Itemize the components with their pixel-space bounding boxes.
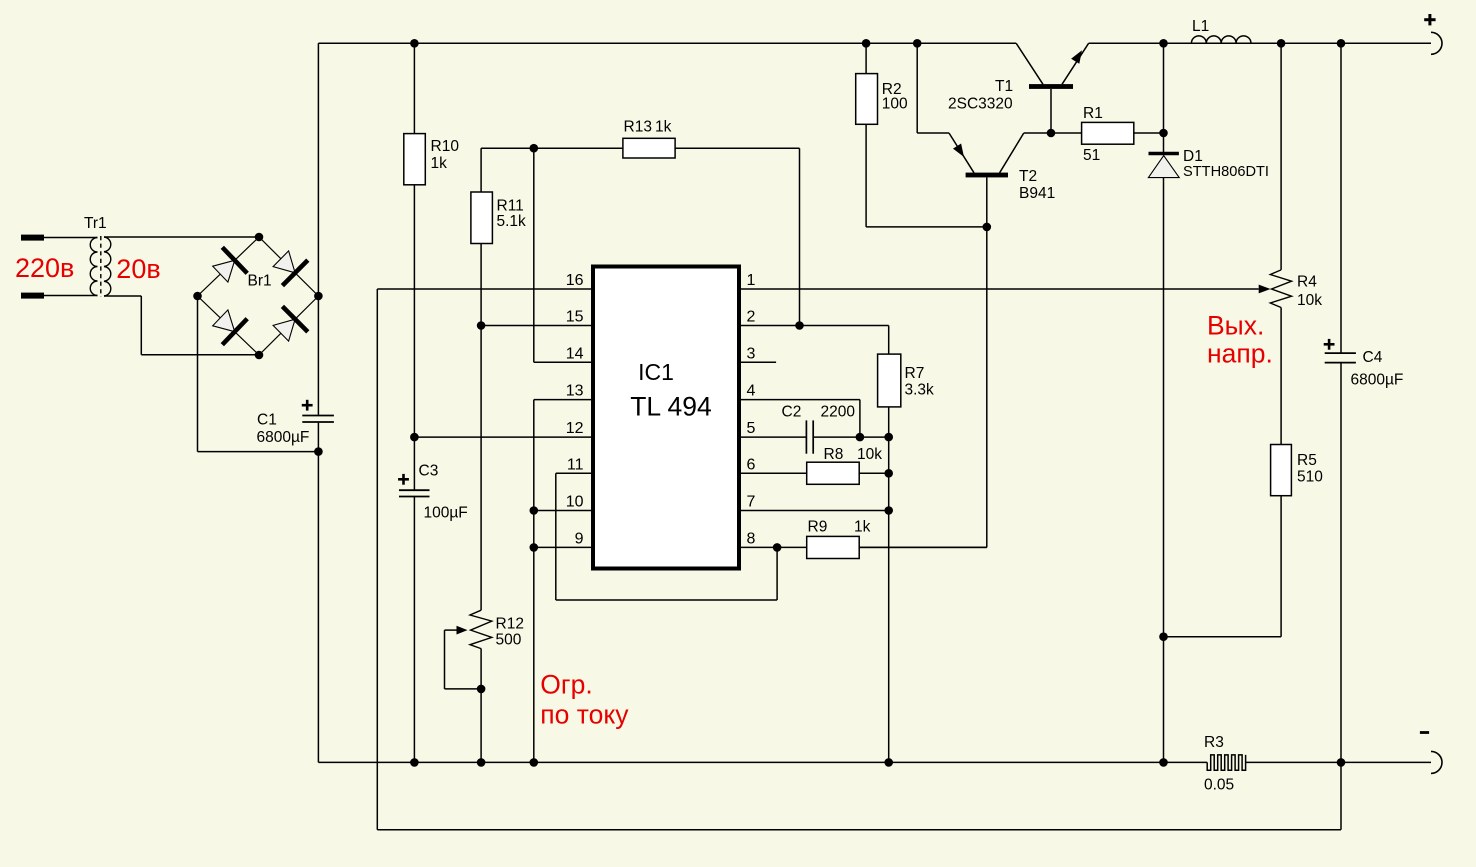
svg-text:R8: R8 [824, 446, 844, 463]
svg-text:R7: R7 [905, 365, 925, 382]
svg-text:6: 6 [747, 456, 756, 473]
svg-text:C4: C4 [1363, 349, 1383, 366]
svg-text:B941: B941 [1019, 185, 1055, 202]
svg-text:3: 3 [747, 345, 756, 362]
svg-text:1: 1 [747, 272, 756, 289]
svg-text:20в: 20в [116, 254, 160, 284]
svg-text:12: 12 [566, 420, 584, 437]
svg-text:10: 10 [566, 494, 584, 511]
svg-text:1k: 1k [655, 119, 672, 136]
svg-text:2200: 2200 [821, 404, 856, 421]
svg-text:Вых.: Вых. [1207, 311, 1264, 341]
svg-text:9: 9 [575, 530, 584, 547]
svg-text:R4: R4 [1297, 274, 1317, 291]
svg-text:10k: 10k [1297, 292, 1322, 309]
svg-text:2SC3320: 2SC3320 [948, 96, 1013, 113]
svg-text:0.05: 0.05 [1204, 777, 1234, 794]
svg-text:TL 494: TL 494 [630, 392, 712, 422]
svg-text:R1: R1 [1083, 105, 1103, 122]
svg-text:2: 2 [747, 309, 756, 326]
svg-text:по току: по току [540, 700, 629, 730]
svg-text:Огр.: Огр. [540, 670, 592, 700]
svg-text:100: 100 [882, 96, 908, 113]
svg-text:100µF: 100µF [424, 505, 468, 522]
svg-text:напр.: напр. [1207, 338, 1273, 368]
svg-text:510: 510 [1297, 469, 1323, 486]
svg-text:R12: R12 [496, 616, 524, 633]
svg-text:R11: R11 [497, 198, 524, 215]
svg-text:11: 11 [567, 456, 584, 473]
svg-text:3.3k: 3.3k [905, 382, 935, 399]
svg-text:14: 14 [566, 345, 584, 362]
svg-text:4: 4 [747, 383, 756, 400]
svg-text:5: 5 [747, 420, 756, 437]
svg-text:51: 51 [1083, 147, 1100, 164]
svg-text:6800µF: 6800µF [257, 429, 310, 446]
svg-text:IC1: IC1 [638, 359, 674, 385]
svg-text:1k: 1k [431, 155, 448, 172]
svg-text:1k: 1k [854, 519, 871, 536]
svg-text:STTH806DTI: STTH806DTI [1183, 164, 1269, 180]
svg-text:C2: C2 [782, 404, 802, 421]
svg-text:13: 13 [566, 383, 584, 400]
svg-text:T1: T1 [995, 78, 1013, 95]
svg-text:D1: D1 [1183, 148, 1203, 165]
svg-text:6800µF: 6800µF [1351, 372, 1404, 389]
svg-text:C3: C3 [419, 463, 439, 480]
svg-text:Tr1: Tr1 [84, 215, 107, 232]
svg-text:R13: R13 [624, 119, 652, 136]
svg-text:C1: C1 [257, 412, 277, 429]
svg-text:R5: R5 [1297, 452, 1317, 469]
svg-text:R3: R3 [1204, 734, 1224, 751]
svg-text:5.1k: 5.1k [497, 213, 527, 230]
svg-text:L1: L1 [1192, 18, 1209, 35]
svg-text:10k: 10k [857, 446, 882, 463]
svg-text:220в: 220в [15, 253, 74, 283]
svg-text:500: 500 [496, 632, 522, 649]
svg-text:Br1: Br1 [248, 273, 272, 290]
svg-text:R10: R10 [431, 138, 460, 155]
svg-text:T2: T2 [1019, 168, 1037, 185]
svg-text:15: 15 [566, 309, 584, 326]
svg-text:16: 16 [566, 272, 584, 289]
svg-text:8: 8 [747, 530, 756, 547]
svg-text:R9: R9 [808, 519, 828, 536]
svg-text:7: 7 [747, 494, 756, 511]
